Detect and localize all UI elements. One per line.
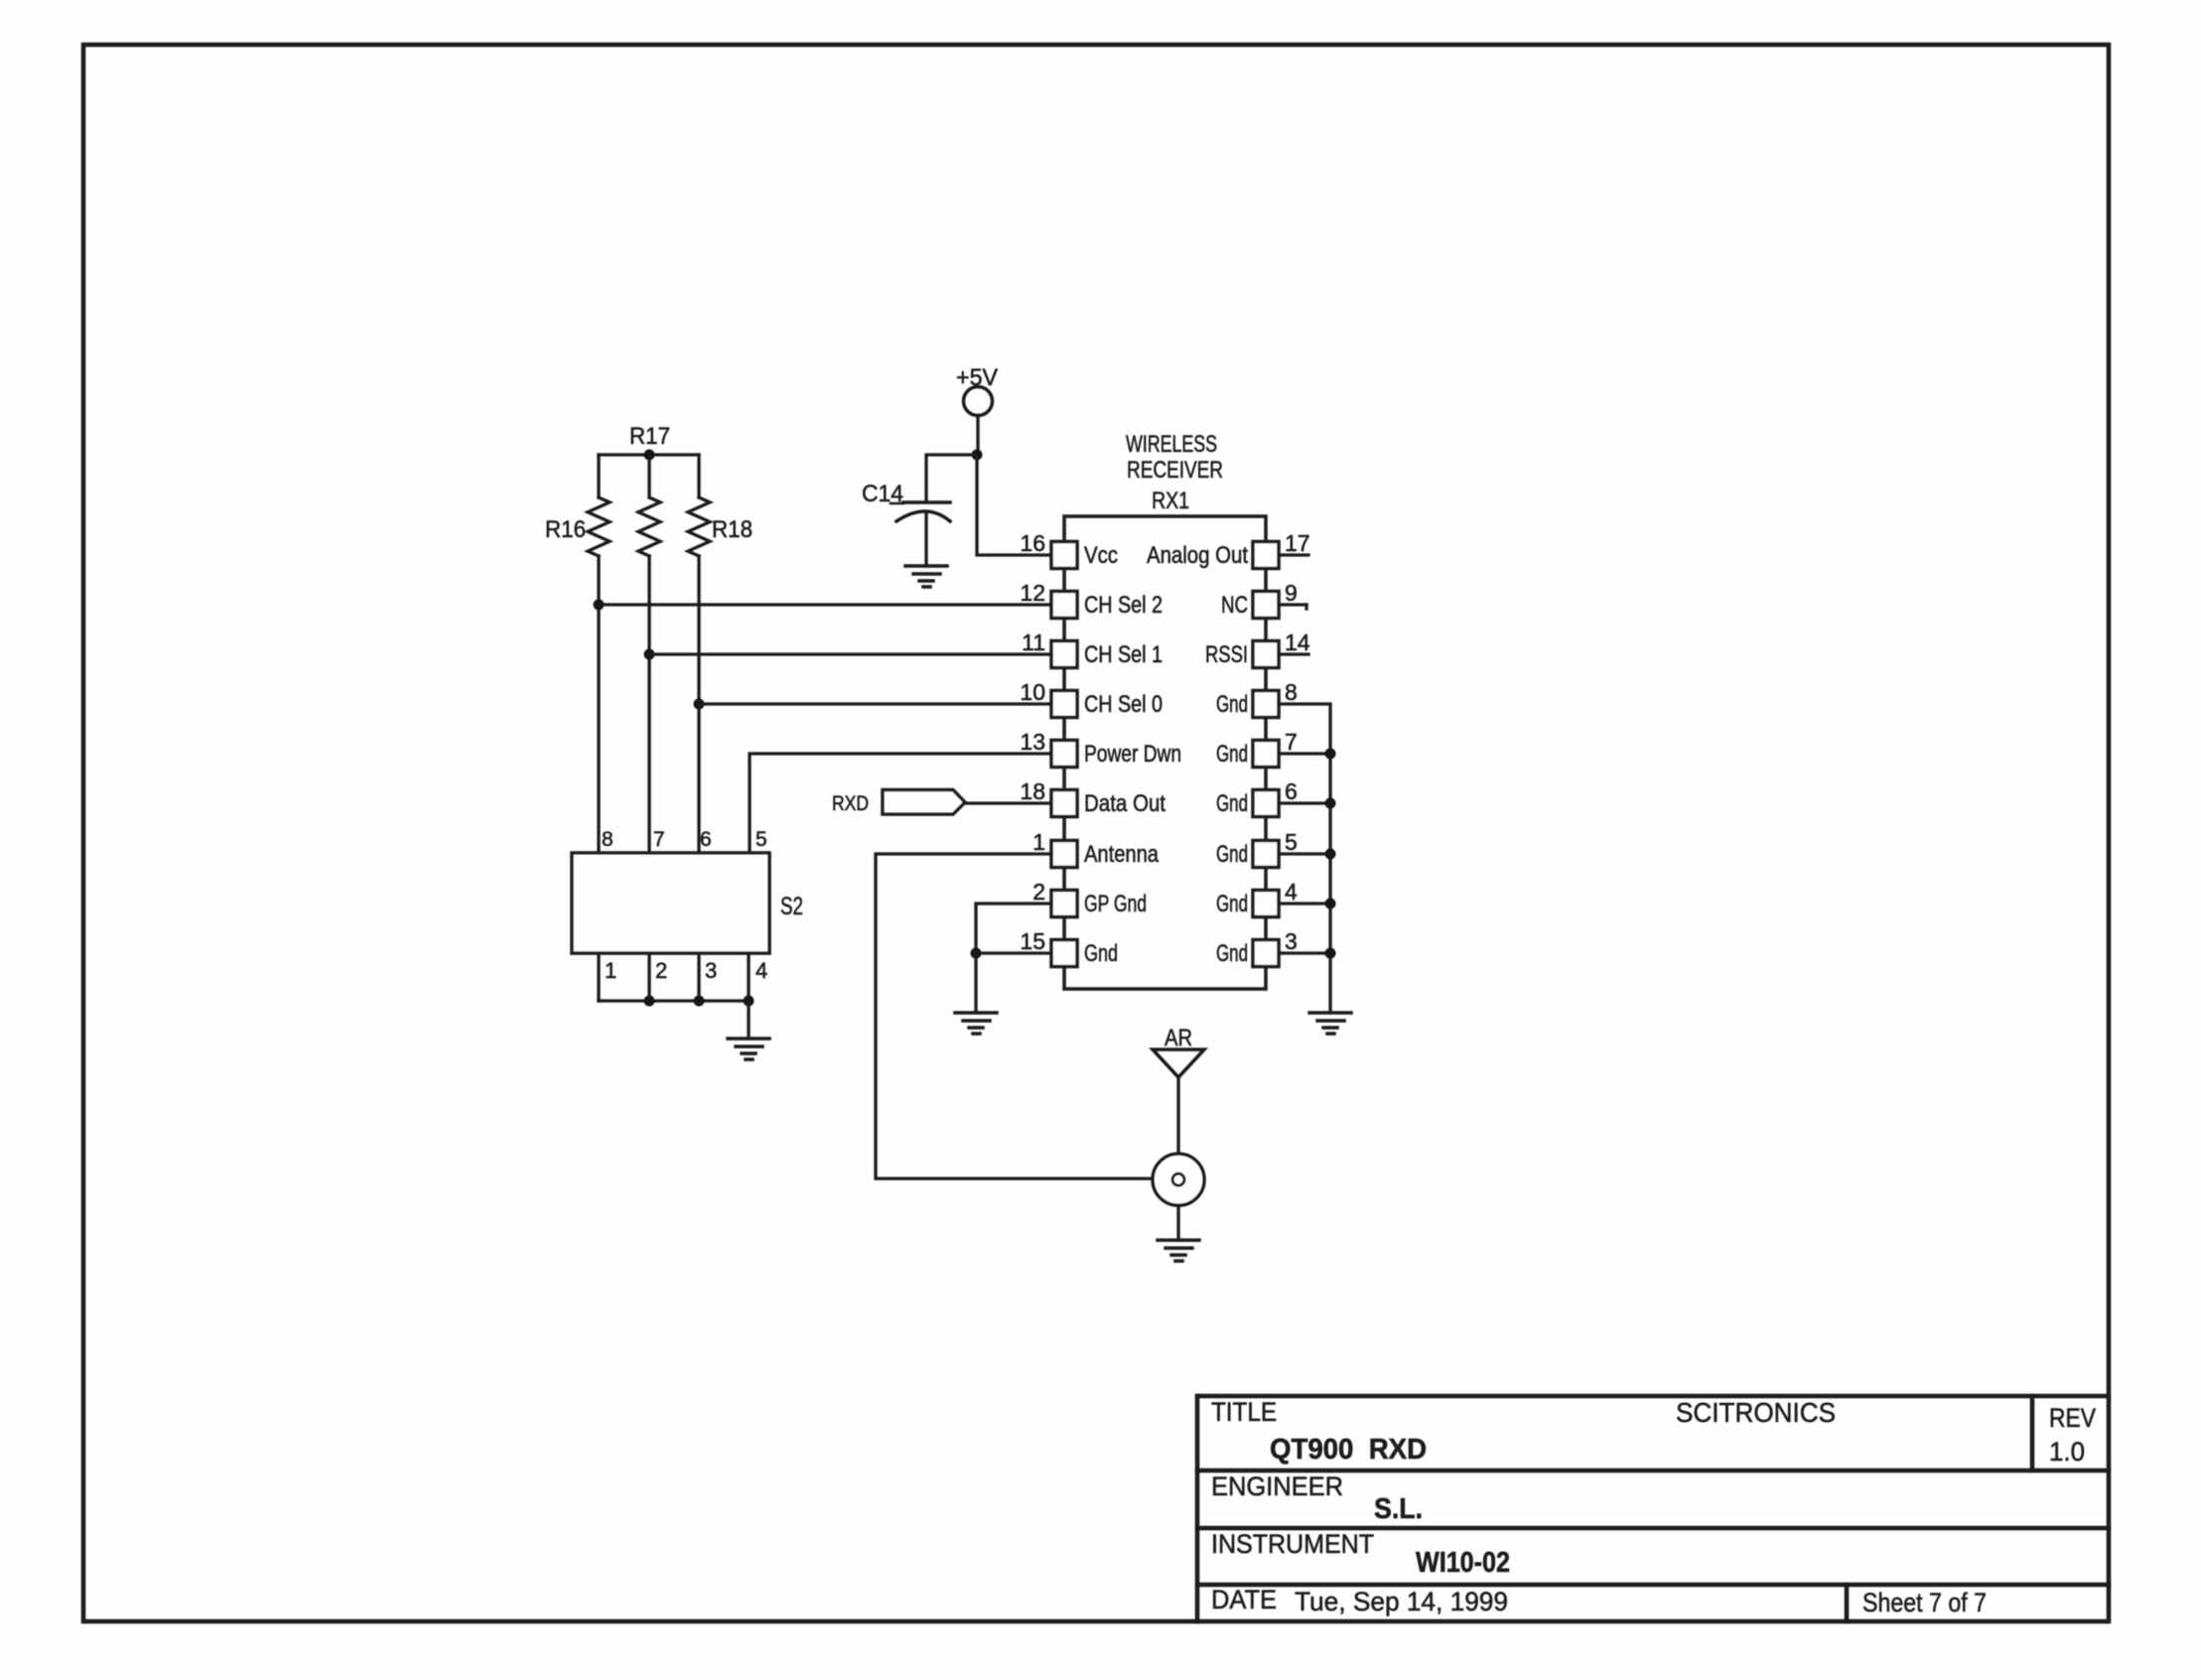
wire right gnd bus [1279,704,1330,1013]
pin 9 stub [1279,603,1307,606]
connector BNC outer [1153,1154,1204,1205]
svg-text:R18: R18 [712,516,753,543]
pin 5 box right [1253,841,1279,868]
svg-text:7: 7 [653,828,665,851]
svg-text:Vcc: Vcc [1084,542,1118,569]
svg-text:8: 8 [602,828,614,851]
svg-text:3: 3 [705,958,717,983]
svg-text:4: 4 [756,958,767,983]
wire pin6 to bus [1279,801,1330,804]
wire R17 down to S2 pin 7 [647,556,650,853]
switch S2 [572,853,769,953]
title block outline [1197,1396,2109,1621]
wire BNC to ground [1176,1205,1179,1240]
wire Gnd pin15 [976,951,1051,954]
svg-text:Antenna: Antenna [1084,841,1160,868]
svg-text:S.L.: S.L. [1374,1493,1423,1525]
svg-text:SCITRONICS: SCITRONICS [1676,1397,1836,1428]
wire S2 pin 3 [697,953,700,1001]
svg-text:6: 6 [1285,778,1298,804]
svg-text:CH Sel 0: CH Sel 0 [1084,691,1163,718]
pin 10 box left [1051,691,1077,718]
pin 1 box left [1051,841,1077,868]
node bus dot pin7 [1325,749,1336,760]
wire S2 pin 2 [647,953,650,1001]
svg-text:NC: NC [1221,592,1248,619]
wire S2 bottom bus [599,999,749,1002]
wire pin3 to bus [1279,951,1330,954]
node bus dot pin6 [1325,798,1336,809]
svg-text:Tue, Sep 14, 1999: Tue, Sep 14, 1999 [1295,1587,1508,1616]
node R17 top junction [644,450,655,461]
wire junction to C14 [926,455,977,502]
wire GP Gnd [976,904,1051,953]
svg-text:3: 3 [1285,928,1298,954]
svg-text:WIRELESS: WIRELESS [1126,431,1217,458]
wire R18 down to S2 pin 6 [697,556,700,853]
svg-text:5: 5 [756,828,767,851]
resistor R16 [588,455,610,556]
ground below gnd bus [1309,1013,1351,1034]
wire S2 to ground [747,1001,750,1039]
wire pin4 to bus [1279,902,1330,905]
pin 18 box left [1051,790,1077,817]
pin 14 box right [1253,641,1279,668]
wire R16 down to S2 pin 8 [597,556,600,853]
node bus dot pin4 [1325,899,1336,910]
node S2 bus dot 3 [694,996,705,1007]
resistor R18 [688,455,710,556]
ground below S2 [728,1039,769,1059]
pin 2 box left [1051,891,1077,917]
svg-text:12: 12 [1020,580,1045,606]
svg-text:DATE: DATE [1211,1585,1277,1614]
wire Power Dwn to S2 pin 5 [750,754,1051,853]
svg-text:REV: REV [2049,1403,2096,1433]
svg-text:R16: R16 [545,516,586,543]
node CH Sel 0 junction [694,699,705,710]
pin 15 box left [1051,940,1077,967]
svg-text:Gnd: Gnd [1216,940,1248,967]
node CH Sel 2 junction [594,600,605,611]
pin 7 box right [1253,741,1279,768]
antenna AR [1153,1050,1204,1077]
ground below C14 [905,566,947,587]
svg-text:S2: S2 [780,893,803,920]
pin 9 box right [1253,592,1279,619]
wire pin5 to bus [1279,852,1330,855]
svg-text:4: 4 [1285,879,1298,905]
node CH Sel 1 junction [644,649,655,660]
svg-text:1.0: 1.0 [2049,1437,2085,1467]
svg-text:GP Gnd: GP Gnd [1084,891,1147,917]
svg-text:Gnd: Gnd [1216,841,1248,868]
node S2 bus dot 2 [644,996,655,1007]
svg-text:CH Sel 1: CH Sel 1 [1084,641,1163,668]
svg-text:Gnd: Gnd [1216,691,1248,718]
pin 6 box right [1253,790,1279,817]
svg-text:18: 18 [1020,778,1045,804]
svg-text:11: 11 [1022,630,1045,655]
wire CH Sel 1 [649,652,1051,655]
resistor network top rail [599,453,699,456]
wire antenna to BNC [1176,1077,1179,1174]
wire CH Sel 0 [699,702,1051,705]
svg-text:7: 7 [1285,729,1298,755]
signal flag RXD [883,790,965,815]
svg-text:Gnd: Gnd [1084,940,1118,967]
svg-text:5: 5 [1285,829,1298,855]
svg-text:RSSI: RSSI [1205,641,1248,668]
wire CH Sel 2 [599,603,1051,606]
svg-text:Data Out: Data Out [1084,790,1166,817]
pin 16 box left [1051,542,1077,569]
pin 13 box left [1051,741,1077,768]
svg-text:14: 14 [1285,630,1310,655]
svg-text:CH Sel 2: CH Sel 2 [1084,592,1163,619]
pin 8 box right [1253,691,1279,718]
svg-text:Sheet 7 of 7: Sheet 7 of 7 [1862,1588,1987,1617]
wire S2 pin 4 [747,953,750,1001]
node bus dot pin3 [1325,948,1336,959]
svg-text:2: 2 [655,958,667,983]
IC RX1 body [1064,516,1266,989]
pin 12 box left [1051,592,1077,619]
svg-text:TITLE: TITLE [1211,1397,1277,1427]
svg-text:6: 6 [700,828,712,851]
svg-text:R17: R17 [629,423,670,450]
svg-text:Gnd: Gnd [1216,790,1248,817]
svg-text:Gnd: Gnd [1216,741,1248,768]
pin 17 stub [1279,553,1308,556]
pin 11 box left [1051,641,1077,668]
svg-text:17: 17 [1285,530,1310,556]
svg-text:QT900 RXD: QT900 RXD [1270,1434,1427,1466]
ground below BNC [1158,1240,1199,1261]
svg-text:INSTRUMENT: INSTRUMENT [1211,1529,1374,1559]
node Gnd junction [971,948,982,959]
pin 3 box right [1253,940,1279,967]
svg-text:10: 10 [1020,679,1045,705]
svg-text:RX1: RX1 [1152,488,1189,514]
connector BNC inner [1172,1174,1184,1186]
capacitor C14 [891,502,950,566]
resistor R17 [638,455,660,556]
wire +5V to junction [976,416,979,456]
svg-text:8: 8 [1285,679,1298,705]
svg-text:1: 1 [1032,829,1045,855]
svg-text:Power Dwn: Power Dwn [1084,741,1181,768]
svg-text:15: 15 [1020,928,1045,954]
pin 14 stub [1279,652,1308,655]
wire Antenna to BNC [876,854,1172,1179]
node bus dot pin5 [1325,849,1336,860]
svg-text:AR: AR [1165,1025,1192,1051]
svg-text:13: 13 [1020,729,1045,755]
svg-text:Gnd: Gnd [1216,891,1248,917]
ground below pin15 [955,1013,997,1034]
node +5V junction [972,450,983,461]
svg-text:RECEIVER: RECEIVER [1127,457,1223,484]
wire S2 pin 1 [597,953,600,1001]
wire pin7 to bus [1279,752,1330,755]
svg-text:ENGINEER: ENGINEER [1211,1471,1343,1501]
node S2 bus dot 4 [744,996,755,1007]
svg-text:1: 1 [605,958,617,983]
power +5V circle [964,387,993,416]
svg-text:WI10-02: WI10-02 [1416,1547,1510,1579]
svg-text:16: 16 [1020,530,1045,556]
pin 4 box right [1253,891,1279,917]
svg-text:2: 2 [1032,879,1045,905]
wire +5V junction down [977,455,1051,555]
wire Gnd junction to ground [974,953,977,1013]
svg-text:Analog Out: Analog Out [1147,542,1248,569]
pin 17 box right [1253,542,1279,569]
svg-text:RXD: RXD [832,792,869,815]
wire RXD to Data Out [965,801,1051,804]
svg-text:9: 9 [1285,580,1298,606]
